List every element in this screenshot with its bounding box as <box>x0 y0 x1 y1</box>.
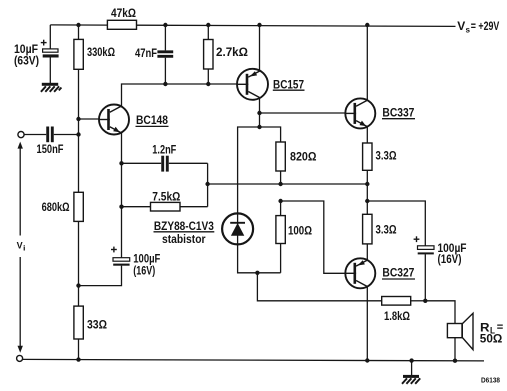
svg-text:680kΩ: 680kΩ <box>42 200 70 214</box>
svg-text:D6138: D6138 <box>481 376 500 385</box>
node output to speaker <box>423 299 427 303</box>
capacitor 100uF bypass plus <box>111 247 117 253</box>
wire 10uF top lead <box>49 25 51 49</box>
wire 33R bottom lead <box>78 339 80 360</box>
label 680k <box>42 200 70 214</box>
svg-text:BZY88-C1V3: BZY88-C1V3 <box>154 219 214 233</box>
resistor 2.7k <box>204 40 213 70</box>
svg-text:100Ω: 100Ω <box>288 223 312 237</box>
resistor 33R <box>74 306 83 339</box>
wire 2.7k top lead <box>207 25 209 40</box>
label 150nF <box>37 142 64 156</box>
svg-text:(16V): (16V) <box>133 264 155 278</box>
wire output cap branch horizontal <box>367 201 425 246</box>
node feedback takeoff <box>255 271 259 275</box>
label 1.8k <box>384 309 410 323</box>
wire BC327 collector to ground rail <box>366 287 368 361</box>
capacitor 100uF output <box>418 246 435 255</box>
wire 1.8k right lead <box>411 300 426 302</box>
label 1.2nF <box>152 143 176 157</box>
label 33R <box>87 318 107 332</box>
svg-text:s: s <box>466 26 471 35</box>
svg-text:BC148: BC148 <box>136 113 168 127</box>
label BC337 <box>382 105 415 119</box>
label 100R <box>288 223 312 237</box>
wire output down jog <box>366 184 368 214</box>
label 3.3R lower <box>376 223 397 237</box>
wire 47nF bottom lead <box>164 58 166 84</box>
wire top supply rail right segment <box>137 25 456 26</box>
capacitor 100uF bypass <box>113 258 130 266</box>
capacitor 150nF <box>48 127 53 143</box>
node 2.7k bottom <box>206 82 210 86</box>
svg-text:3.3Ω: 3.3Ω <box>376 223 397 237</box>
resistor 100R top lead <box>280 201 282 216</box>
node 3.3R top junction <box>365 182 369 186</box>
label Vs=+29V <box>457 21 499 35</box>
wire ground stem <box>411 361 413 376</box>
transistor Q BC148 <box>99 105 129 135</box>
wire BC157 emitter to rail <box>259 25 261 71</box>
capacitor 1.2nF <box>163 156 168 172</box>
label 3.3R upper <box>376 149 397 163</box>
node 33R on ground rail <box>76 357 80 361</box>
capacitor 10uF electrolytic <box>43 49 59 58</box>
svg-text:i: i <box>23 246 26 253</box>
node 100R top <box>278 199 282 203</box>
node bias chain top <box>257 125 261 129</box>
label BC157 <box>273 78 305 92</box>
resistor 3.3R upper <box>363 143 372 170</box>
transistor Q BC337 <box>345 98 375 128</box>
wire 1.2nF right lead <box>169 162 208 164</box>
wire 2.7k bottom lead <box>207 69 209 84</box>
svg-text:1.2nF: 1.2nF <box>152 143 176 157</box>
wire speaker bottom <box>454 338 456 361</box>
resistor 47k <box>107 20 136 29</box>
node output rail left <box>205 182 209 186</box>
node 680k bottom <box>76 283 80 287</box>
node output cap branch <box>365 199 369 203</box>
wire 7.5k right lead <box>180 206 208 208</box>
wire bottom ground rail <box>22 359 484 361</box>
node 1.2nF junction on emitter <box>119 161 123 165</box>
svg-text:150nF: 150nF <box>37 142 64 156</box>
resistor 1.8k <box>382 297 411 306</box>
svg-text:V: V <box>457 21 465 33</box>
label 47k <box>111 6 136 20</box>
wire 100R bottom lead <box>280 244 282 273</box>
label 330k <box>87 45 115 59</box>
wire BC148 collector node line <box>122 84 238 106</box>
wire 330k top lead <box>78 25 80 39</box>
wire 47nF top lead <box>164 25 166 51</box>
label RL=50R <box>480 321 504 346</box>
svg-text:2.7kΩ: 2.7kΩ <box>216 45 248 59</box>
label 820 <box>290 149 317 163</box>
svg-text:= +29V: = +29V <box>471 21 500 33</box>
node BC337 collector on rail <box>365 23 369 27</box>
label 7.5k <box>152 190 180 204</box>
speaker RL <box>447 313 473 349</box>
resistor 7.5k <box>151 202 181 211</box>
wire BC337 collector to rail <box>366 25 368 100</box>
node 2.7k top on rail <box>206 23 210 27</box>
node driver to BC337 base <box>257 111 261 115</box>
node 820 bottom <box>278 182 282 186</box>
node BC157 emitter on rail <box>257 23 261 27</box>
svg-text:BC327: BC327 <box>382 266 414 280</box>
wire 3.3R upper bottom lead <box>366 170 368 184</box>
svg-text:820Ω: 820Ω <box>290 149 317 163</box>
wire BC148 emitter column <box>121 133 123 258</box>
wire output cap bottom <box>424 254 426 301</box>
label 47nF <box>135 46 157 60</box>
terminal input bottom <box>17 355 23 361</box>
svg-text:3.3Ω: 3.3Ω <box>376 149 397 163</box>
wire diode bottom <box>238 244 281 272</box>
wire output node line <box>208 183 368 185</box>
capacitor 47nF <box>157 52 173 57</box>
wire BC157 collector column <box>259 98 261 128</box>
node speaker on ground rail <box>453 359 457 363</box>
wire BC148 base lead <box>79 118 100 120</box>
ground bottom <box>402 375 420 384</box>
node 330k top on rail <box>76 23 80 27</box>
node 47nF top on rail <box>163 23 167 27</box>
node BC327 collector on ground rail <box>365 358 369 362</box>
node ground stem <box>409 358 413 362</box>
wire 150nF to bias column <box>54 134 79 136</box>
wire 3.3R lower bottom lead <box>366 244 368 260</box>
label Vi <box>17 241 26 253</box>
svg-text:33Ω: 33Ω <box>87 318 107 332</box>
label BC148 <box>136 113 169 127</box>
node BC148 base junction <box>76 117 80 121</box>
wire 820 bottom lead <box>280 171 282 184</box>
node 47nF bottom <box>163 82 167 86</box>
label BC327 <box>382 266 415 280</box>
transistor Q BC157 <box>237 69 268 100</box>
svg-text:BC337: BC337 <box>382 105 414 119</box>
resistor 820 <box>276 142 285 171</box>
wire 10uF bottom stem <box>49 57 51 83</box>
wire to speaker <box>425 301 455 324</box>
wire top supply rail left segment <box>50 24 108 26</box>
svg-text:47nF: 47nF <box>135 46 157 60</box>
wire 1.2nF left lead <box>122 162 162 164</box>
svg-text:stabistor: stabistor <box>162 232 206 246</box>
resistor 680k <box>74 192 83 221</box>
wire to BC337 base <box>260 112 346 114</box>
resistor 100R <box>276 216 285 244</box>
label D6138 <box>481 376 500 385</box>
terminal input top <box>18 132 24 138</box>
node 7.5k junction on emitter <box>119 205 123 209</box>
svg-text:330kΩ: 330kΩ <box>87 45 115 59</box>
svg-text:(63V): (63V) <box>14 54 39 68</box>
svg-text:7.5kΩ: 7.5kΩ <box>152 190 180 204</box>
svg-text:47kΩ: 47kΩ <box>111 6 136 20</box>
wire bias chain top horizontal <box>238 127 281 213</box>
transistor Q BC327 <box>345 258 375 288</box>
wire input to 150nF <box>24 134 46 136</box>
wire feedback vertical <box>207 163 209 206</box>
label 10uF plus sign <box>41 40 47 46</box>
ground top-left <box>41 83 62 92</box>
label BZY88-C1V3 <box>154 219 215 246</box>
diode stabistor BZY88 <box>222 213 253 245</box>
label 100uF bypass <box>133 252 160 278</box>
wire 100uF bypass bottom <box>79 266 122 286</box>
svg-text:50Ω: 50Ω <box>480 332 503 346</box>
wire 7.5k left lead <box>122 206 151 208</box>
label 100uF output <box>438 241 467 266</box>
resistor 330k <box>74 39 83 69</box>
svg-text:1.8kΩ: 1.8kΩ <box>384 309 410 323</box>
arrow Vi <box>18 142 23 353</box>
wire BC327 base route <box>281 201 346 273</box>
label 10uF value <box>14 42 39 68</box>
wire bias column 330k bottom to 680k top <box>78 69 80 192</box>
capacitor 100uF output plus <box>414 236 420 242</box>
node 150nF junction <box>76 132 80 136</box>
resistor 3.3R lower <box>363 214 372 244</box>
svg-text:(16V): (16V) <box>438 252 462 266</box>
wire feedback bottom run <box>257 273 381 301</box>
wire BC337 emitter lead <box>366 127 368 143</box>
wire 680k bottom junctions <box>78 221 80 306</box>
label 2.7k <box>216 45 248 59</box>
